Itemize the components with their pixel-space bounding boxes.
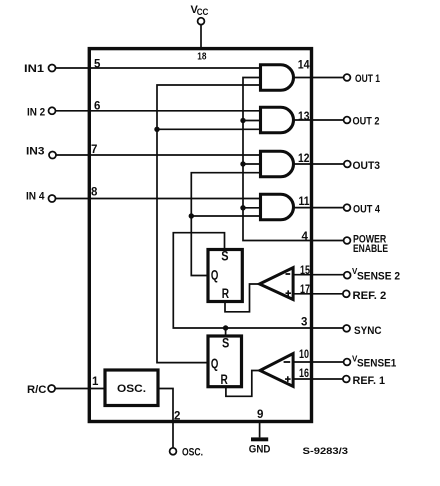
svg-text:CC: CC [197, 7, 209, 17]
svg-text:17: 17 [300, 284, 310, 296]
svg-text:6: 6 [94, 101, 100, 113]
svg-text:IN 2: IN 2 [27, 107, 45, 119]
svg-text:7: 7 [91, 144, 97, 156]
svg-text:10: 10 [299, 349, 309, 361]
svg-text:REF. 2: REF. 2 [353, 290, 387, 302]
svg-text:R: R [221, 372, 228, 387]
svg-text:R/C: R/C [27, 384, 46, 396]
svg-text:4: 4 [302, 231, 309, 243]
svg-text:SENSE1: SENSE1 [357, 357, 396, 369]
svg-text:15: 15 [300, 265, 310, 277]
svg-text:ENABLE: ENABLE [353, 243, 388, 255]
svg-text:V: V [352, 267, 358, 276]
svg-text:18: 18 [197, 50, 206, 62]
svg-text:OUT 4: OUT 4 [353, 204, 381, 216]
svg-text:GND: GND [249, 444, 271, 456]
svg-text:OSC.: OSC. [117, 383, 146, 395]
svg-text:OSC.: OSC. [182, 446, 203, 458]
svg-text:IN 4: IN 4 [26, 191, 45, 203]
svg-text:S-9283/3: S-9283/3 [303, 446, 349, 457]
svg-text:OUT 1: OUT 1 [355, 73, 380, 85]
svg-text:SENSE 2: SENSE 2 [357, 271, 400, 283]
svg-text:OUT3: OUT3 [353, 160, 381, 172]
svg-text:16: 16 [299, 368, 309, 380]
svg-text:2: 2 [174, 411, 180, 423]
svg-text:Q: Q [211, 268, 219, 283]
svg-text:3: 3 [301, 317, 307, 329]
svg-text:9: 9 [257, 409, 263, 421]
svg-text:IN3: IN3 [26, 146, 45, 158]
svg-text:1: 1 [92, 376, 99, 388]
svg-text:5: 5 [94, 59, 101, 71]
svg-text:8: 8 [91, 187, 98, 199]
svg-text:V: V [352, 354, 358, 363]
svg-text:Q: Q [211, 356, 219, 371]
svg-text:REF. 1: REF. 1 [353, 375, 386, 387]
svg-text:R: R [222, 286, 229, 301]
svg-text:OUT 2: OUT 2 [353, 116, 380, 128]
svg-text:S: S [222, 336, 229, 351]
svg-text:IN1: IN1 [24, 63, 44, 75]
svg-text:12: 12 [298, 153, 310, 165]
svg-text:14: 14 [298, 60, 310, 72]
svg-text:S: S [221, 248, 228, 263]
svg-text:11: 11 [299, 196, 311, 208]
svg-text:13: 13 [298, 111, 310, 123]
svg-text:SYNC: SYNC [354, 325, 382, 337]
